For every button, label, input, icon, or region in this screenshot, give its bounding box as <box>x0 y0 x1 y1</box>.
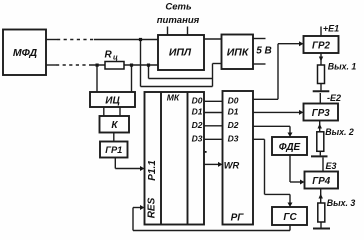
svg-text:питания: питания <box>157 15 200 26</box>
svg-text:+Е1: +Е1 <box>323 24 339 34</box>
svg-text:Вых. 3: Вых. 3 <box>327 198 356 208</box>
svg-text:ГР3: ГР3 <box>312 108 331 119</box>
svg-text:ИПЛ: ИПЛ <box>169 47 192 59</box>
svg-text:D1: D1 <box>228 107 239 117</box>
svg-text:ГР1: ГР1 <box>105 145 122 155</box>
svg-text:К: К <box>111 120 118 131</box>
svg-text:WR: WR <box>224 160 240 170</box>
svg-text:-Е2: -Е2 <box>327 93 341 103</box>
svg-text:P1.1: P1.1 <box>147 160 158 181</box>
svg-text:D3: D3 <box>192 133 203 143</box>
svg-text:Вых. 2: Вых. 2 <box>325 127 354 137</box>
svg-text:МК: МК <box>167 93 180 103</box>
svg-text:ГР2: ГР2 <box>312 40 331 51</box>
svg-text:D0: D0 <box>192 95 203 105</box>
svg-text:5 В: 5 В <box>256 46 272 57</box>
svg-text:D2: D2 <box>192 120 203 130</box>
svg-text:ФДЕ: ФДЕ <box>279 142 301 153</box>
svg-text:R: R <box>105 50 113 61</box>
svg-text:МФД: МФД <box>13 47 38 59</box>
svg-text:D1: D1 <box>192 107 203 117</box>
svg-text:D0: D0 <box>228 95 239 105</box>
svg-text:Сеть: Сеть <box>165 2 192 13</box>
svg-text:Вых. 1: Вых. 1 <box>328 62 357 72</box>
svg-text:RES: RES <box>147 197 158 218</box>
svg-text:ИПК: ИПК <box>227 47 250 59</box>
svg-text:D3: D3 <box>228 133 239 143</box>
svg-text:Е3: Е3 <box>325 161 336 171</box>
svg-text:ГР4: ГР4 <box>312 176 331 187</box>
svg-text:ГС: ГС <box>283 212 297 223</box>
svg-text:ц: ц <box>113 53 118 62</box>
svg-text:D2: D2 <box>228 120 239 130</box>
svg-text:ИЦ: ИЦ <box>105 95 120 106</box>
svg-text:РГ: РГ <box>231 213 245 224</box>
